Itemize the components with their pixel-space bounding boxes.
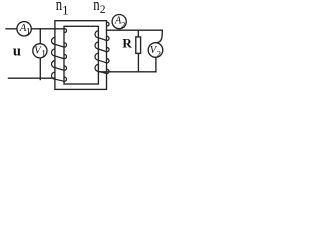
svg-text:u: u <box>13 43 21 59</box>
svg-text:1: 1 <box>62 2 69 17</box>
svg-text:2: 2 <box>121 19 125 29</box>
svg-text:1: 1 <box>26 27 31 37</box>
svg-text:1: 1 <box>41 50 46 60</box>
svg-text:2: 2 <box>100 4 106 16</box>
svg-text:2: 2 <box>157 48 161 58</box>
svg-text:R: R <box>122 35 132 50</box>
